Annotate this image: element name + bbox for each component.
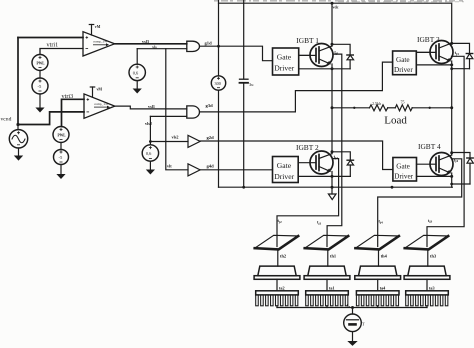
svg-text:th1: th1 [330,254,336,259]
svg-text:tj2: tj2 [278,218,283,224]
svg-text:T: T [362,322,365,327]
svg-text:g1d: g1d [205,40,213,45]
svg-text:g2d: g2d [207,135,215,140]
svg-text:Driver: Driver [274,64,294,73]
svg-text:3u: 3u [249,82,254,87]
svg-text:300: 300 [215,81,221,86]
svg-text:IGBT 4: IGBT 4 [418,142,441,151]
svg-text:th4: th4 [381,254,388,259]
svg-text:IGBT 3: IGBT 3 [417,35,440,44]
svg-text:vls: vls [152,46,157,50]
svg-text:vlt: vlt [167,164,172,169]
svg-text:vls2: vls2 [172,134,179,139]
svg-text:75: 75 [401,99,405,104]
svg-text:Gate: Gate [396,56,410,64]
svg-text:vM: vM [95,25,101,29]
svg-text:IGBT 2: IGBT 2 [296,143,319,152]
svg-text:Gate: Gate [396,163,410,171]
svg-text:comp_1/4: comp_1/4 [93,40,107,44]
svg-text:th3: th3 [430,254,437,259]
svg-text:tj4: tj4 [379,219,384,225]
svg-text:0,6: 0,6 [133,70,139,76]
svg-text:Gate: Gate [277,53,292,62]
svg-text:comp_1/4: comp_1/4 [94,102,108,106]
svg-text:Gate: Gate [277,161,292,170]
svg-text:tj3: tj3 [455,50,460,56]
svg-text:PWL: PWL [58,134,67,138]
svg-text:vtri1: vtri1 [47,42,59,49]
svg-text:vtri3: vtri3 [62,93,74,100]
svg-text:g4d: g4d [207,164,215,169]
svg-text:-5: -5 [38,84,43,89]
svg-text:vdc: vdc [333,5,339,10]
svg-text:vcnd: vcnd [1,117,12,123]
svg-text:IGBT 1: IGBT 1 [296,36,319,45]
svg-text:g3d: g3d [206,103,214,108]
svg-text:ta: ta [347,303,350,309]
svg-text:ta3: ta3 [429,285,435,290]
svg-text:tj2: tj2 [334,154,339,160]
svg-text:0,6: 0,6 [146,151,152,157]
svg-text:tj1: tj1 [317,220,322,226]
svg-text:ta2: ta2 [279,285,285,290]
svg-text:ta4: ta4 [380,285,386,290]
svg-text:th2: th2 [280,254,286,259]
svg-text:PWL: PWL [37,62,46,66]
svg-text:Load: Load [384,114,407,126]
svg-text:vls2: vls2 [145,121,152,126]
svg-text:tj3: tj3 [428,218,433,224]
svg-text:ta1: ta1 [329,285,335,290]
svg-text:Driver: Driver [394,66,413,74]
svg-text:vsl1: vsl1 [148,104,155,109]
svg-text:2.5kh: 2.5kh [372,101,381,106]
svg-text:tj1: tj1 [334,50,339,56]
svg-text:vM: vM [97,87,103,91]
svg-text:-5: -5 [59,155,64,160]
svg-text:Driver: Driver [274,172,294,181]
svg-text:tj4: tj4 [454,157,459,163]
svg-text:vsl3: vsl3 [142,39,149,44]
svg-text:Driver: Driver [394,173,413,181]
